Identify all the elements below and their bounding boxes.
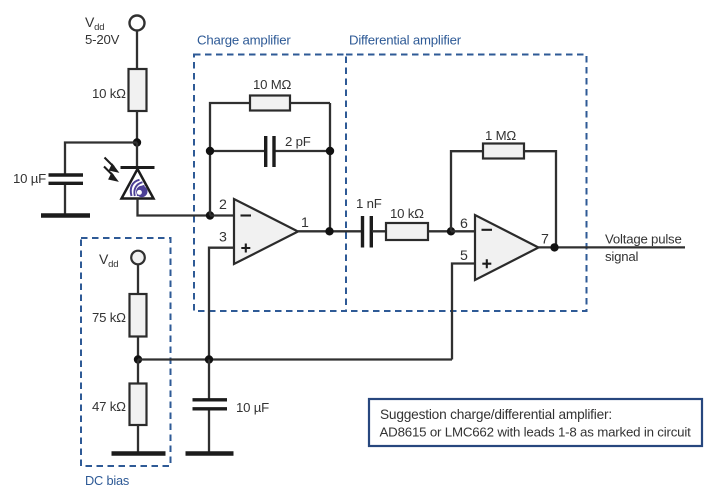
resistor R5 1 MOhm bbox=[483, 128, 524, 159]
svg-text:2 pF: 2 pF bbox=[285, 134, 311, 149]
wire: feedback left rail bbox=[210, 103, 330, 216]
wire: R6 to bias node bbox=[137, 337, 139, 360]
wire: 2pF row left bbox=[210, 150, 264, 152]
photodiode logo swirl bbox=[131, 180, 148, 197]
wire: pin 6 input bbox=[451, 230, 475, 232]
wire: R7 to ground bbox=[137, 425, 139, 452]
resistor R4 10 kOhm bbox=[386, 206, 428, 240]
svg-text:10 MΩ: 10 MΩ bbox=[253, 77, 292, 92]
svg-text:3: 3 bbox=[219, 230, 227, 246]
dashed box: Differential amplifier region bbox=[346, 33, 587, 312]
svg-text:7: 7 bbox=[541, 232, 549, 248]
node: U1 output junction bbox=[325, 227, 333, 235]
wire: bias rail horizontal bbox=[138, 358, 452, 360]
capacitor C1 10 uF bbox=[13, 171, 83, 186]
svg-text:Differential amplifier: Differential amplifier bbox=[349, 33, 462, 48]
resistor R1 10 kOhm bbox=[92, 69, 147, 111]
node: pin 6 junction bbox=[447, 227, 455, 235]
op-amp U1 charge amplifier bbox=[219, 197, 309, 264]
svg-text:Vdd: Vdd bbox=[99, 251, 118, 270]
svg-text:DC bias: DC bias bbox=[85, 473, 129, 488]
svg-text:5-20V: 5-20V bbox=[85, 32, 120, 47]
node: bias cap junction bbox=[205, 355, 213, 363]
node B (pin 2 junction) bbox=[206, 211, 214, 219]
capacitor C3 1 nF bbox=[356, 196, 382, 248]
node: 2pF right junction bbox=[326, 147, 334, 155]
capacitor C2 2 pF bbox=[266, 134, 311, 167]
dashed box: DC bias region bbox=[81, 238, 171, 488]
wire: terminal to R1 bbox=[136, 31, 138, 70]
svg-text:2: 2 bbox=[219, 197, 227, 213]
node: output junction bbox=[550, 243, 558, 251]
op-amp U2 differential amplifier bbox=[460, 215, 549, 280]
wire: pin 3 input bbox=[209, 248, 234, 360]
svg-text:Charge amplifier: Charge amplifier bbox=[197, 33, 291, 48]
wire: node A to capacitor C1 bbox=[65, 143, 137, 175]
svg-text:10 kΩ: 10 kΩ bbox=[390, 206, 424, 221]
wire: feedback 2 rail bbox=[451, 151, 556, 247]
svg-text:Suggestion charge/differential: Suggestion charge/differential amplifier… bbox=[380, 407, 612, 422]
svg-text:Voltage pulse: Voltage pulse bbox=[605, 232, 682, 247]
dashed box: Charge amplifier region bbox=[194, 33, 346, 312]
wire: pin 5 input riser bbox=[452, 264, 475, 360]
ground G1 bbox=[41, 213, 90, 218]
ground G2 bbox=[112, 451, 166, 456]
svg-text:5: 5 bbox=[460, 248, 468, 264]
wire: 2pF row right bbox=[276, 150, 331, 152]
svg-text:1: 1 bbox=[301, 215, 309, 231]
wire: C1 to ground bbox=[64, 185, 66, 214]
wire: node A to photodiode bbox=[136, 143, 138, 168]
svg-text:1 nF: 1 nF bbox=[356, 196, 382, 211]
svg-text:47 kΩ: 47 kΩ bbox=[92, 399, 126, 414]
label: voltage pulse signal bbox=[605, 232, 682, 265]
resistor R7 47 kOhm bbox=[92, 384, 147, 426]
wire: bias cap lead bbox=[208, 360, 210, 399]
svg-text:1 MΩ: 1 MΩ bbox=[485, 128, 516, 143]
wire: pin 2 input bbox=[210, 214, 234, 216]
suggestion note box bbox=[369, 399, 702, 446]
wire: V2 to R6 bbox=[137, 265, 139, 295]
svg-text:6: 6 bbox=[460, 216, 468, 232]
node: 2pF left junction bbox=[206, 147, 214, 155]
svg-text:10 µF: 10 µF bbox=[13, 171, 46, 186]
wire: R1 to node A bbox=[136, 111, 138, 142]
wire: U2 output bbox=[539, 246, 686, 248]
photodiode D1 bbox=[104, 158, 155, 199]
svg-text:10 kΩ: 10 kΩ bbox=[92, 86, 126, 101]
supply terminal V1 (Vdd 5-20V) bbox=[85, 14, 145, 47]
node A junction bbox=[133, 138, 141, 146]
resistor R6 75 kOhm bbox=[92, 294, 147, 337]
resistor R2 10 MOhm bbox=[250, 77, 292, 111]
wire: bias node to R7 bbox=[137, 360, 139, 384]
svg-text:signal: signal bbox=[605, 249, 639, 264]
wire: U1 output bbox=[298, 230, 361, 232]
wire: photodiode to node B bbox=[138, 199, 211, 216]
svg-text:Vdd: Vdd bbox=[85, 14, 104, 33]
svg-text:AD8615 or LMC662 with leads 1-: AD8615 or LMC662 with leads 1-8 as marke… bbox=[380, 425, 692, 440]
ground G3 bbox=[186, 451, 234, 456]
svg-text:10 µF: 10 µF bbox=[236, 400, 269, 415]
wire: C4 to ground bbox=[208, 411, 210, 452]
svg-text:75 kΩ: 75 kΩ bbox=[92, 310, 126, 325]
wire: feedback right rail bbox=[329, 103, 331, 231]
wire: C3 to R4 bbox=[372, 230, 451, 232]
node: bias divider junction bbox=[134, 355, 142, 363]
capacitor C4 10 uF bbox=[193, 400, 270, 415]
supply terminal V2 (Vdd DC bias) bbox=[99, 251, 145, 270]
